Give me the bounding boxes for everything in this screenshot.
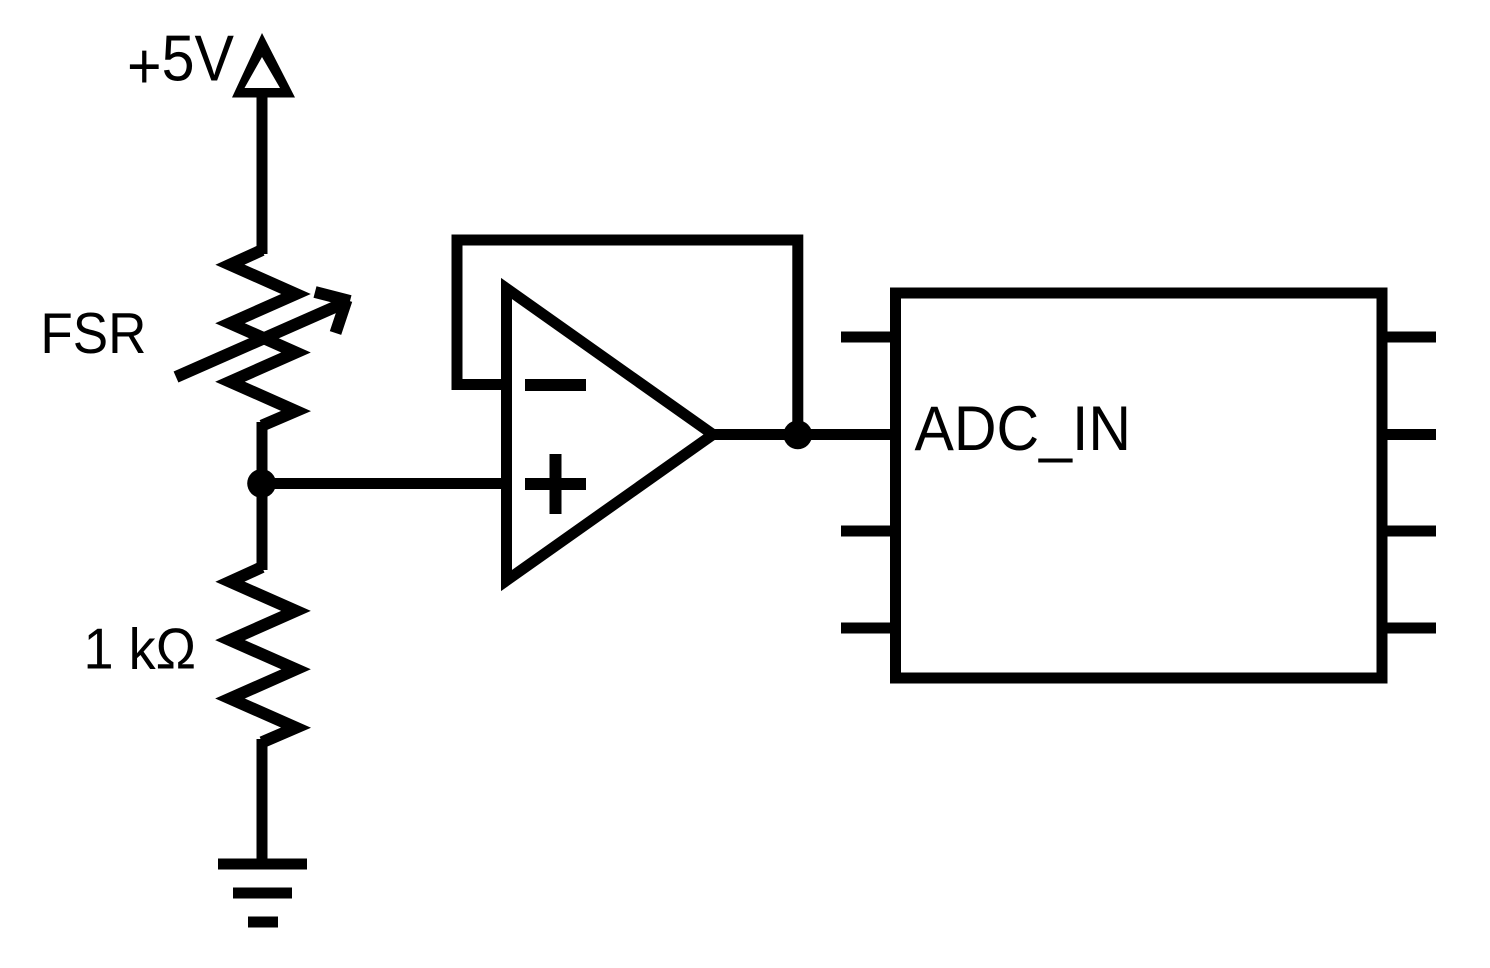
resistor FSR (variable)	[230, 250, 296, 426]
FSR wiper arrow shaft	[176, 303, 344, 377]
wire op-amp output to ADC pin	[713, 429, 895, 440]
pin left 3	[841, 526, 895, 537]
pin right 4	[1382, 623, 1436, 634]
wire node A to op-amp + input	[262, 478, 507, 489]
wire FSR to node A	[257, 422, 268, 570]
pin left 1	[841, 332, 895, 343]
op-amp U1	[507, 289, 714, 581]
output node junction dot	[783, 420, 812, 449]
svg-text:ADC_IN: ADC_IN	[915, 394, 1132, 464]
svg-text:FSR: FSR	[40, 302, 146, 366]
ground	[218, 864, 307, 922]
node A junction dot	[247, 469, 276, 498]
pin left 4	[841, 623, 895, 634]
FSR wiper arrowhead	[315, 292, 350, 333]
resistor R1 1 kOhm	[230, 567, 296, 742]
pin right 1	[1382, 332, 1436, 343]
pin right 3	[1382, 526, 1436, 537]
IC U2 ADC box	[896, 293, 1383, 678]
op-amp plus symbol	[525, 454, 586, 514]
svg-text:1 kΩ: 1 kΩ	[84, 618, 197, 682]
power +5V symbol	[232, 33, 295, 98]
svg-text:+5V: +5V	[127, 23, 234, 103]
wire +5V to FSR	[257, 94, 268, 254]
pin right 2	[1382, 429, 1436, 440]
op-amp minus symbol	[525, 379, 586, 391]
feedback wire output to - input	[457, 240, 798, 435]
wire R1 to ground	[257, 739, 268, 864]
